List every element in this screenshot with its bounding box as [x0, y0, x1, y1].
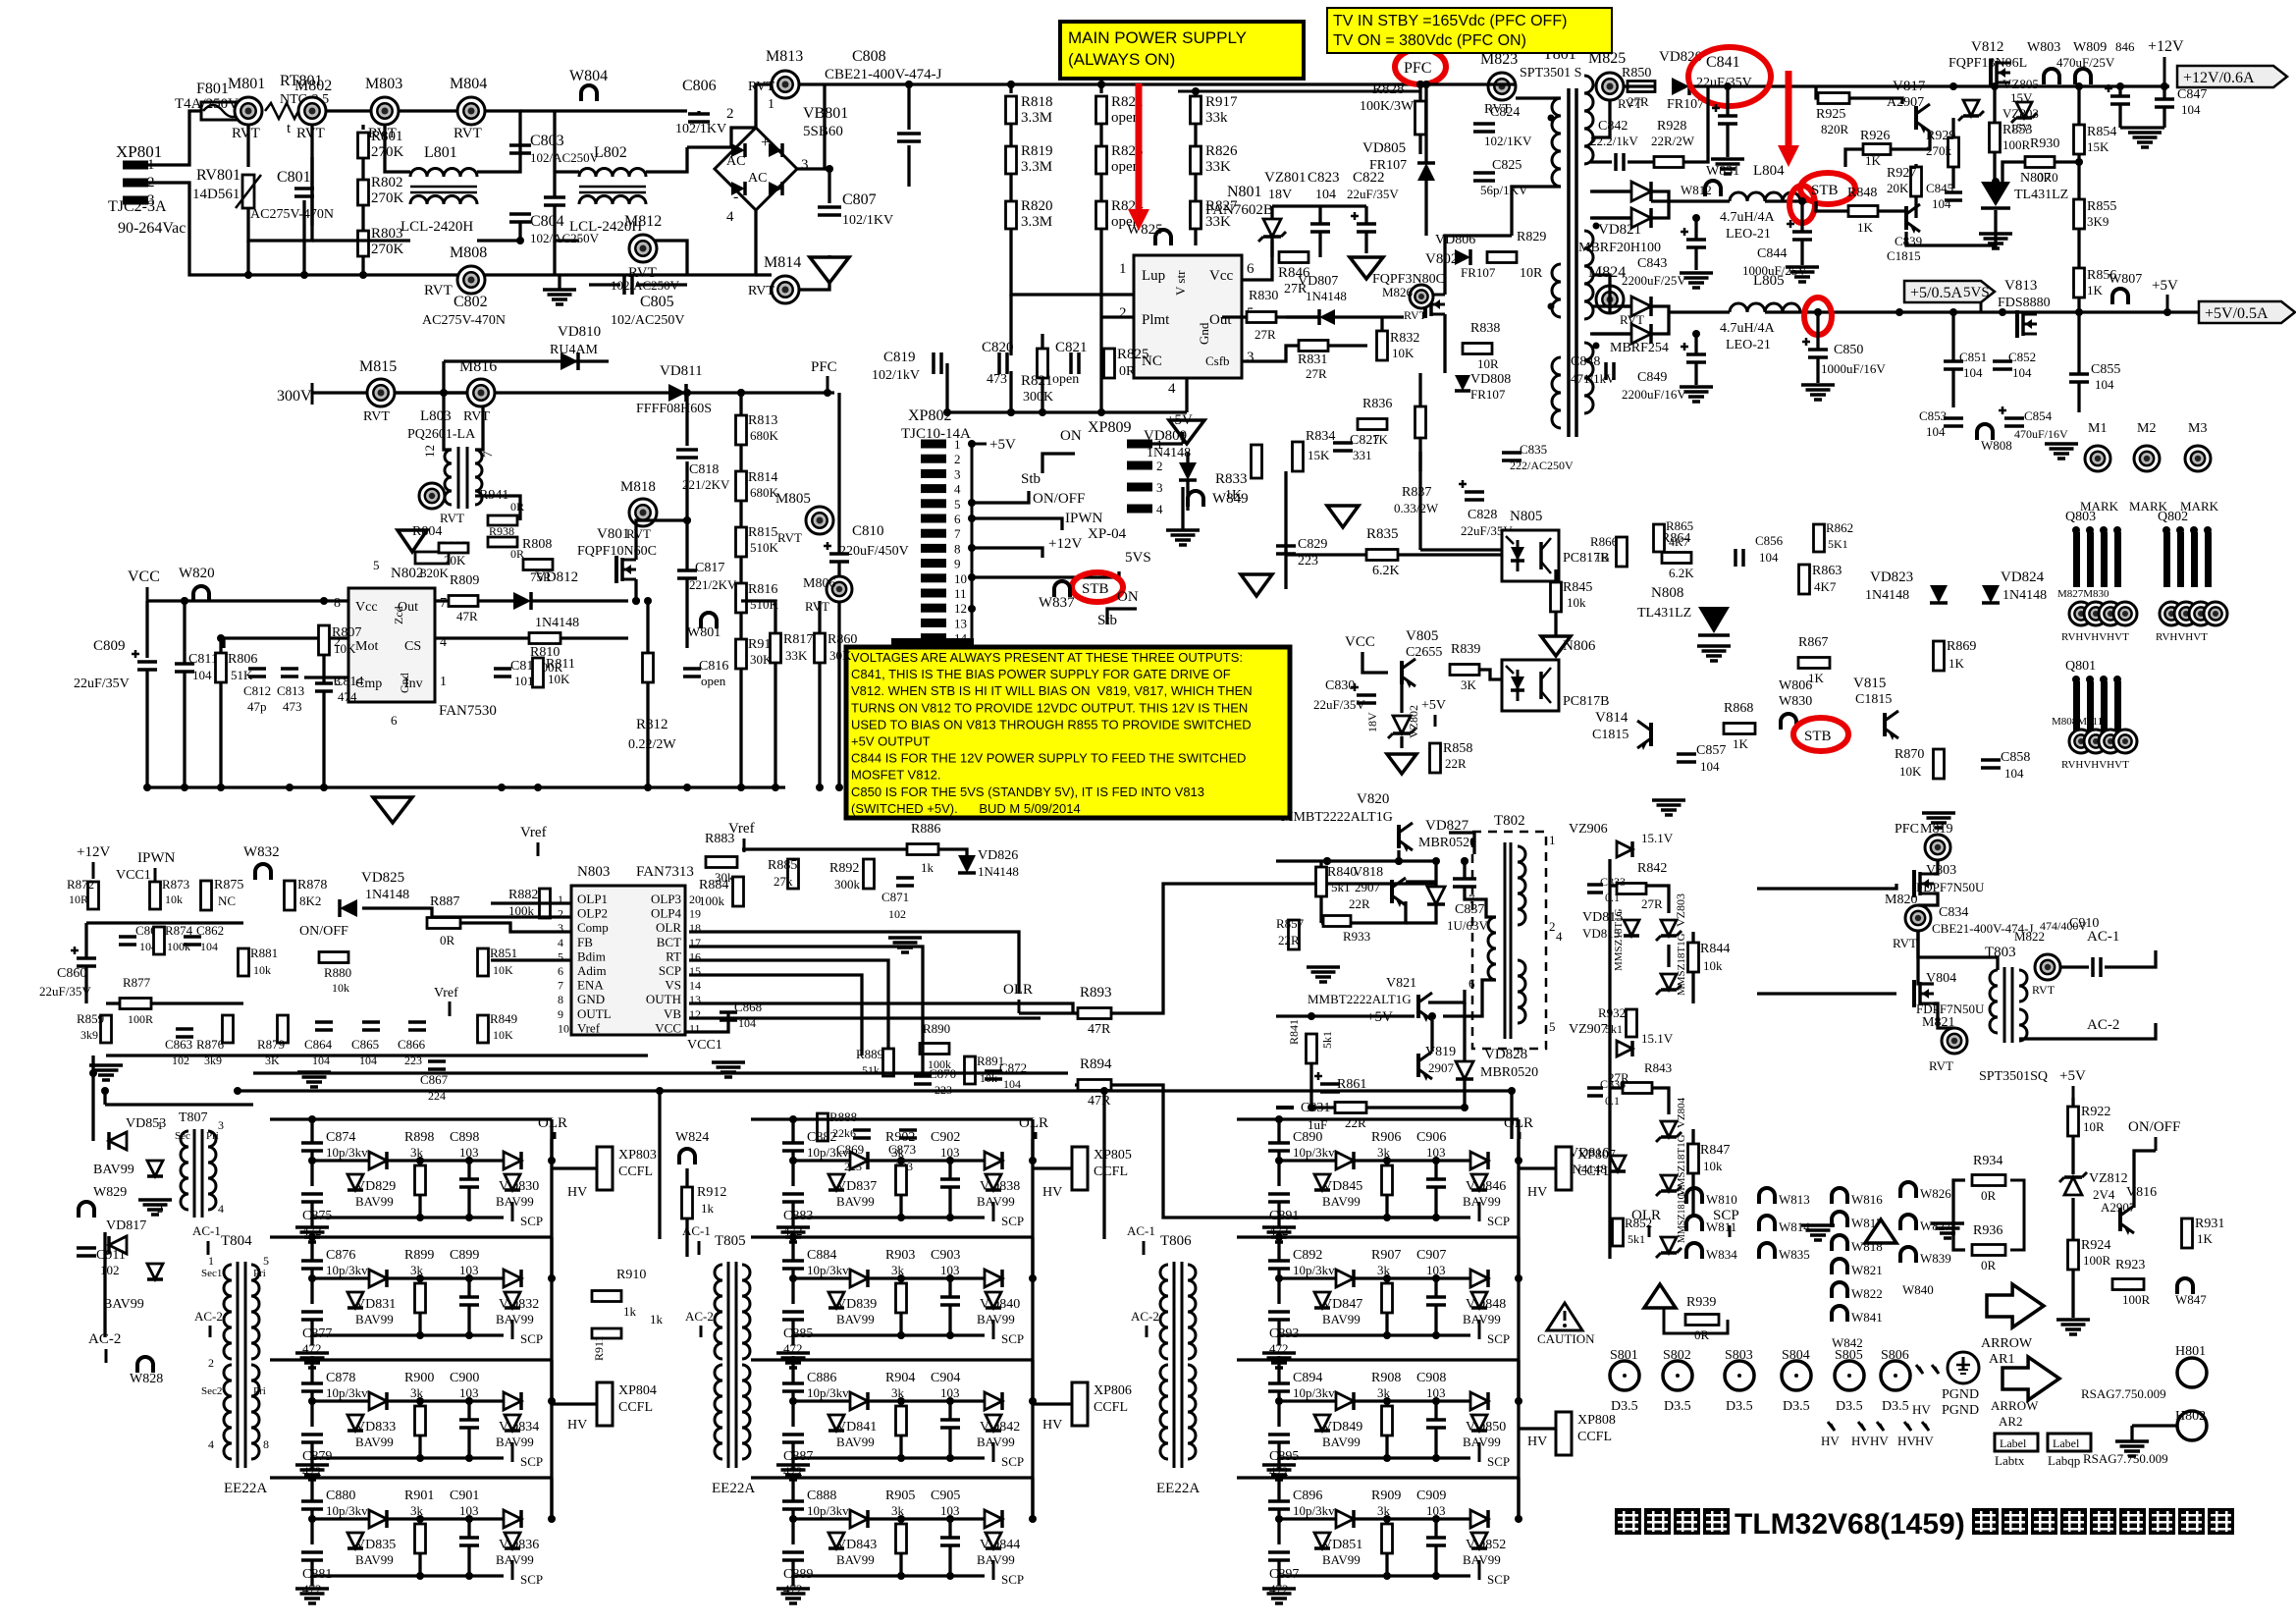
- svg-text:R894: R894: [1080, 1056, 1112, 1072]
- svg-text:W830: W830: [1779, 694, 1812, 709]
- svg-text:4: 4: [218, 1202, 224, 1216]
- wire T802 feeds: [1428, 859, 1436, 862]
- svg-text:T802: T802: [1494, 813, 1525, 829]
- svg-text:RVT: RVT: [232, 126, 260, 141]
- svg-text:C900: C900: [450, 1371, 479, 1385]
- wire mot: [224, 636, 348, 639]
- svg-text:R917: R917: [1205, 94, 1238, 110]
- svg-text:102/1KV: 102/1KV: [1484, 134, 1532, 148]
- diode VD847 BAV99: [1336, 1270, 1354, 1287]
- capacitor C853 104: [1944, 416, 1963, 420]
- svg-text:1N4148: 1N4148: [535, 616, 579, 630]
- svg-text:6: 6: [391, 713, 398, 728]
- svg-text:N802: N802: [391, 566, 423, 581]
- svg-text:5k1: 5k1: [1331, 880, 1351, 894]
- svg-text:MMSZ18T1G: MMSZ18T1G: [1613, 908, 1625, 971]
- svg-text:1N4148: 1N4148: [1865, 588, 1909, 603]
- svg-text:10p/3kv: 10p/3kv: [1293, 1263, 1335, 1277]
- resistor R801 270K: [361, 125, 364, 130]
- svg-text:R889: R889: [856, 1047, 883, 1061]
- svg-text:L804: L804: [1753, 163, 1785, 179]
- jumper group W816 W817 W818 W821 W822 W841: [1832, 1188, 1847, 1204]
- svg-text:ON: ON: [1117, 589, 1139, 605]
- mosfet V803 FDPF7N50U: [1912, 870, 1916, 897]
- capacitor C814 474: [315, 681, 333, 685]
- diode VD830 BAV99 right: [504, 1152, 521, 1169]
- junction dots R900: [308, 1397, 316, 1405]
- svg-text:R928: R928: [1657, 119, 1686, 134]
- diode VD822 MBRF254: [1631, 297, 1651, 316]
- svg-text:331: 331: [1353, 448, 1372, 462]
- wire R837 chain: [1418, 373, 1421, 406]
- svg-text:R808: R808: [522, 537, 552, 552]
- svg-text:OLR: OLR: [656, 920, 681, 935]
- diode VD824 1N4148: [1982, 585, 2000, 603]
- svg-text:C874: C874: [326, 1130, 355, 1145]
- svg-text:BAV99: BAV99: [1322, 1312, 1361, 1326]
- svg-text:56p/1KV: 56p/1KV: [1480, 183, 1528, 197]
- resistor R906 3k: [1382, 1165, 1393, 1195]
- resistor R885 27k: [788, 859, 799, 889]
- resistor R832 10K: [1377, 331, 1388, 360]
- svg-text:VCC1: VCC1: [687, 1038, 722, 1053]
- svg-text:C906: C906: [1416, 1130, 1446, 1145]
- main HV bus wire: [799, 82, 1420, 85]
- wire r877 row: [106, 1001, 120, 1004]
- svg-text:C850: C850: [1834, 343, 1863, 357]
- resistor R892 300k: [864, 859, 875, 889]
- svg-text:510K: 510K: [750, 540, 779, 555]
- svg-text:2200uF/16V: 2200uF/16V: [1622, 387, 1686, 402]
- zener VZ902 col: [1661, 974, 1677, 990]
- svg-text:0R: 0R: [1981, 1258, 1997, 1272]
- capacitor C871 102: [896, 876, 914, 880]
- resistor R810 100R: [529, 633, 561, 644]
- svg-text:open: open: [1052, 372, 1079, 387]
- capacitor C802 mid: [544, 195, 565, 199]
- resistor R847 10k: [1688, 1144, 1699, 1173]
- junction dots R903: [789, 1274, 797, 1282]
- svg-text:open: open: [701, 674, 726, 688]
- svg-text:ARROW: ARROW: [1981, 1336, 2033, 1351]
- svg-text:1: 1: [208, 1254, 214, 1268]
- transformer L803 right pins: [475, 496, 520, 520]
- ground earth R857: [1307, 965, 1340, 969]
- ground earth vd826: [888, 936, 922, 940]
- capacitor C804: [509, 212, 531, 216]
- svg-text:C810: C810: [852, 523, 884, 539]
- svg-text:BAV99: BAV99: [977, 1552, 1015, 1567]
- svg-text:(SWITCHED +5V). BUD M 5/0: (SWITCHED +5V). BUD M 5/09/2014: [851, 801, 1081, 816]
- svg-text:MBR0520: MBR0520: [1418, 836, 1476, 850]
- junction dots R905: [789, 1515, 797, 1523]
- capacitor C824: [1473, 122, 1495, 126]
- svg-text:OLR: OLR: [1631, 1208, 1661, 1223]
- svg-text:R843: R843: [1644, 1060, 1672, 1075]
- svg-text:VD805: VD805: [1362, 140, 1406, 156]
- svg-text:W803: W803: [2027, 40, 2060, 55]
- svg-text:10k: 10k: [1567, 595, 1586, 610]
- resistor R804 820K: [415, 552, 449, 564]
- svg-text:M1: M1: [2088, 421, 2107, 436]
- wire cmp: [304, 676, 348, 678]
- wire v805 chain: [1362, 652, 1388, 673]
- svg-text:5VS: 5VS: [1125, 550, 1151, 566]
- svg-text:Sec2: Sec2: [201, 1385, 222, 1397]
- svg-text:CCFL: CCFL: [1094, 1400, 1128, 1415]
- svg-text:R878: R878: [297, 878, 327, 893]
- xp802 net +5V: [972, 443, 987, 446]
- svg-text:C844 IS FOR THE 12V POWER SUPP: C844 IS FOR THE 12V POWER SUPPLY TO FEED…: [851, 751, 1246, 766]
- capacitor C909 103: [1426, 1536, 1446, 1540]
- svg-text:XP806: XP806: [1094, 1383, 1132, 1398]
- wire bank2 xp links: [1033, 1166, 1072, 1169]
- svg-text:BAV99: BAV99: [93, 1163, 134, 1177]
- TL431 N807: [1981, 182, 2010, 206]
- capacitor C850 1000uF/16V: [1808, 348, 1828, 352]
- svg-text:W808: W808: [1981, 438, 2012, 453]
- svg-text:C882: C882: [807, 1130, 836, 1145]
- test point M813: [772, 71, 799, 98]
- svg-text:C814: C814: [334, 675, 363, 689]
- svg-text:T803: T803: [1985, 945, 2016, 960]
- svg-text:MMSZ18T1G: MMSZ18T1G: [1676, 933, 1687, 996]
- svg-text:VZ906: VZ906: [1569, 822, 1608, 837]
- wire M803-M804: [399, 109, 457, 112]
- svg-text:VD826: VD826: [978, 848, 1018, 863]
- svg-text:ARROW: ARROW: [1991, 1398, 2039, 1413]
- resistor R846 27R: [1279, 252, 1308, 263]
- svg-text:R885: R885: [768, 858, 797, 873]
- svg-text:10R: 10R: [1477, 356, 1499, 371]
- svg-text:5: 5: [1549, 1019, 1556, 1034]
- svg-text:R865: R865: [1666, 518, 1693, 533]
- wires bridge: [687, 128, 756, 147]
- capacitor C831 1uF: [1320, 1082, 1340, 1086]
- svg-text:1: 1: [157, 1118, 163, 1132]
- svg-text:22uF/35V: 22uF/35V: [1313, 697, 1365, 712]
- svg-text:C809: C809: [93, 638, 126, 654]
- capacitor C856 104: [1734, 549, 1737, 567]
- svg-text:C2655: C2655: [1406, 645, 1442, 660]
- svg-text:R887: R887: [430, 894, 459, 909]
- capacitor C883: [782, 1192, 804, 1196]
- svg-text:104: 104: [192, 668, 212, 682]
- capacitor C848 471/1kV: [1604, 362, 1608, 380]
- SCP stub R904: [992, 1442, 995, 1462]
- svg-text:7: 7: [440, 596, 447, 611]
- ground earth C855: [2045, 442, 2078, 446]
- svg-text:TL431LZ: TL431LZ: [1637, 606, 1691, 621]
- svg-text:12: 12: [954, 601, 967, 616]
- zener VZ906 15.1V: [1617, 841, 1632, 857]
- svg-text:R907: R907: [1371, 1248, 1401, 1263]
- screw holes S801-S806: [1610, 1361, 1639, 1390]
- svg-text:100R: 100R: [2002, 137, 2031, 152]
- svg-text:10p/3kv: 10p/3kv: [807, 1503, 849, 1518]
- svg-text:470uF/16V: 470uF/16V: [2014, 427, 2068, 441]
- svg-text:R832: R832: [1390, 331, 1419, 346]
- svg-text:1K: 1K: [2087, 283, 2104, 298]
- svg-text:R941: R941: [479, 488, 508, 503]
- svg-text:VD825: VD825: [361, 870, 404, 886]
- connector Q801 test points: [2069, 730, 2093, 753]
- svg-text:Out: Out: [398, 600, 418, 615]
- red arrow right: [1786, 71, 1792, 153]
- svg-text:10p/3kv: 10p/3kv: [1293, 1503, 1335, 1518]
- svg-text:R854: R854: [2087, 125, 2116, 139]
- svg-text:C905: C905: [931, 1489, 960, 1503]
- svg-text:5k1: 5k1: [1605, 1022, 1623, 1036]
- svg-text:FDPF7N50U: FDPF7N50U: [1916, 1001, 1985, 1016]
- svg-text:5: 5: [263, 1254, 269, 1268]
- jumpers W806 W830: [1781, 714, 1796, 730]
- svg-text:FDPF7N50U: FDPF7N50U: [1916, 880, 1985, 894]
- resistor R883 30k: [706, 857, 737, 868]
- test point M802: [298, 97, 326, 125]
- svg-text:R886: R886: [911, 822, 940, 837]
- svg-text:LEO-21: LEO-21: [1726, 227, 1771, 242]
- svg-text:FQPF13N06L: FQPF13N06L: [1949, 56, 2027, 71]
- resistor R844 10k: [1688, 943, 1699, 972]
- svg-text:R925: R925: [1816, 107, 1845, 122]
- resistor R807 10K: [319, 625, 330, 655]
- ground tick: [1276, 1106, 1294, 1110]
- svg-text:SCP: SCP: [1487, 1331, 1510, 1346]
- resistor R857 22R: [1289, 920, 1300, 949]
- capacitor C845 104: [1945, 190, 1962, 194]
- diode VD844 BAV99 right: [985, 1510, 1002, 1528]
- svg-text:R817: R817: [783, 632, 813, 647]
- capacitor C855 104: [2069, 372, 2089, 376]
- svg-text:R881: R881: [250, 946, 278, 960]
- svg-text:8K2: 8K2: [299, 893, 321, 908]
- svg-text:R811: R811: [546, 657, 575, 672]
- svg-text:2: 2: [208, 1356, 214, 1370]
- svg-text:(1459): (1459): [1880, 1508, 1965, 1541]
- diode VD834 BAV99 right: [504, 1392, 521, 1410]
- svg-text:0R: 0R: [440, 933, 455, 947]
- resistor R890 100k: [920, 1044, 949, 1055]
- capacitor C846 ecap: [2110, 94, 2130, 98]
- svg-text:VZ803: VZ803: [2002, 106, 2039, 121]
- bottom rail pfc: [147, 785, 785, 788]
- wire V821 base row: [1276, 1014, 1415, 1017]
- jumper W824 + R912: [679, 1149, 695, 1164]
- svg-text:TLM32V68: TLM32V68: [1735, 1508, 1880, 1541]
- connector XP808 CCFL: [1556, 1412, 1572, 1455]
- ground earth w2: [1801, 1223, 1835, 1227]
- resistor R932 5k1: [1627, 1009, 1637, 1037]
- svg-text:R847: R847: [1700, 1143, 1730, 1158]
- svg-text:Bdim: Bdim: [577, 948, 606, 963]
- resistor R882 100k: [540, 889, 551, 918]
- capacitor C897: [1268, 1550, 1290, 1554]
- zener VZ907 15.1V: [1617, 1041, 1632, 1056]
- svg-text:8: 8: [558, 993, 563, 1006]
- svg-text:47R: 47R: [456, 609, 478, 623]
- svg-text:R936: R936: [1973, 1223, 2002, 1238]
- wire row VD847: [1279, 1276, 1336, 1279]
- resistor R824 open: [1099, 174, 1102, 200]
- svg-text:3k9: 3k9: [80, 1028, 98, 1042]
- resistor R835 6.2K: [1366, 550, 1398, 561]
- svg-text:22R: 22R: [1349, 896, 1370, 911]
- capacitor C812 47p: [248, 667, 266, 671]
- svg-text:CCFL: CCFL: [618, 1400, 653, 1415]
- svg-text:SCP: SCP: [1487, 1214, 1510, 1228]
- wire VD821 to L804: [1651, 199, 1730, 202]
- svg-text:V817: V817: [1893, 79, 1926, 94]
- capacitor C861 104: [119, 935, 136, 939]
- resistor R918 30K: [736, 639, 747, 669]
- svg-text:STB: STB: [1082, 581, 1109, 597]
- svg-text:PGND: PGND: [1942, 1403, 1979, 1418]
- diode VD843 BAV99: [850, 1510, 868, 1528]
- wire OLR to R893: [1019, 1011, 1078, 1014]
- jumper W849: [1188, 491, 1203, 507]
- svg-text:4: 4: [726, 209, 734, 225]
- resistor R856 1K: [2074, 268, 2085, 298]
- connector XP801: [123, 161, 148, 170]
- svg-text:XP808: XP808: [1577, 1413, 1616, 1428]
- wire bank2 olr bus: [1031, 1139, 1034, 1519]
- svg-text:C841, THIS IS THE BIAS POWER S: C841, THIS IS THE BIAS POWER SUPPLY FOR …: [851, 667, 1231, 681]
- junction dots main buses: [905, 81, 913, 88]
- svg-text:R859: R859: [77, 1011, 104, 1026]
- svg-text:FFFF08H60S: FFFF08H60S: [636, 402, 712, 416]
- svg-text:C860: C860: [57, 966, 86, 981]
- zener VZ805 15V: [1963, 100, 1979, 116]
- svg-text:100k: 100k: [699, 893, 725, 908]
- capacitor C851 104: [1944, 359, 1963, 363]
- resistor R854 15K: [2074, 125, 2085, 154]
- transformer T805: [727, 1262, 730, 1468]
- wires T802 pins: [1476, 899, 1496, 917]
- svg-text:LEO-21: LEO-21: [1726, 338, 1771, 352]
- svg-text:R888: R888: [829, 1110, 857, 1124]
- svg-text:OLR: OLR: [1504, 1115, 1533, 1131]
- svg-text:C864: C864: [304, 1037, 333, 1052]
- svg-text:+12V: +12V: [77, 844, 110, 860]
- svg-text:10R: 10R: [2083, 1119, 2105, 1134]
- svg-text:R806: R806: [228, 652, 257, 667]
- svg-text:8: 8: [954, 541, 961, 556]
- diode VD851 BAV99: [1336, 1510, 1354, 1528]
- caution triangle: [1547, 1303, 1582, 1330]
- svg-text:R898: R898: [404, 1130, 434, 1145]
- svg-text:PGND: PGND: [1942, 1387, 1979, 1402]
- svg-text:MMSZ18T1G: MMSZ18T1G: [1676, 1134, 1687, 1197]
- svg-text:100k: 100k: [167, 940, 190, 953]
- wire T801 secondary taps: [1592, 100, 1610, 137]
- resistor R803 270K: [358, 231, 369, 256]
- wire +5V to R922 b: [2071, 1098, 2074, 1107]
- svg-text:C804: C804: [530, 213, 564, 230]
- transistor V817 A2907: [1914, 106, 1918, 130]
- svg-text:7: 7: [954, 526, 961, 541]
- jumper group W826 W827 W839: [1900, 1182, 1916, 1198]
- svg-text:M808: M808: [450, 244, 487, 261]
- svg-text:C853: C853: [1919, 408, 1947, 423]
- svg-text:W840: W840: [1902, 1282, 1934, 1297]
- svg-text:M812: M812: [624, 213, 662, 230]
- diode VD852 BAV99 right: [1470, 1510, 1488, 1528]
- svg-text:R825: R825: [1117, 347, 1149, 362]
- ground earth under XP809: [1166, 528, 1200, 532]
- svg-text:L805: L805: [1753, 273, 1785, 289]
- wire row top plate C884: [751, 1235, 1033, 1238]
- capacitor C888: [782, 1499, 804, 1503]
- wire L804 to +12 node: [1765, 199, 1816, 202]
- svg-text:C808: C808: [852, 48, 886, 65]
- resistor R860 30K: [815, 633, 826, 663]
- svg-text:PFC: PFC: [1404, 60, 1431, 77]
- svg-text:(ALWAYS ON): (ALWAYS ON): [1068, 50, 1175, 69]
- wire row bottom R898: [312, 1216, 504, 1218]
- svg-text:R816: R816: [748, 582, 777, 597]
- wire 300V rail: [312, 391, 466, 394]
- svg-text:RVT: RVT: [1929, 1058, 1953, 1073]
- capacitor C813 473: [281, 667, 298, 671]
- svg-text:FR107: FR107: [1369, 158, 1407, 173]
- test point M818: [629, 499, 657, 526]
- SCP stub R908: [1478, 1442, 1481, 1462]
- resistor R911: [592, 1328, 621, 1338]
- svg-text:R883: R883: [705, 832, 734, 846]
- svg-text:SCP: SCP: [659, 963, 681, 978]
- jumper W837: [1054, 581, 1070, 597]
- junction dots R898: [308, 1157, 316, 1164]
- svg-text:5k1: 5k1: [1628, 1232, 1645, 1246]
- svg-text:Pri: Pri: [253, 1385, 266, 1397]
- svg-text:VCC1: VCC1: [116, 868, 151, 883]
- diode VD829 BAV99: [369, 1152, 387, 1169]
- svg-text:R807: R807: [332, 625, 361, 640]
- capacitor C889: [782, 1550, 804, 1554]
- svg-text:102/1KV: 102/1KV: [842, 213, 893, 228]
- resistor R852 5k1: [1613, 1218, 1624, 1246]
- svg-text:N808: N808: [1651, 585, 1683, 601]
- svg-text:R868: R868: [1724, 701, 1753, 716]
- svg-text:BAV99: BAV99: [1463, 1552, 1501, 1567]
- diodes VD853/VD817 left edge: [109, 1132, 127, 1150]
- resistor R806 51K: [216, 653, 227, 682]
- svg-text:C902: C902: [931, 1130, 960, 1145]
- svg-text:3K9: 3K9: [2087, 214, 2109, 229]
- svg-text:104: 104: [1963, 365, 1983, 380]
- svg-text:+5V: +5V: [2059, 1068, 2086, 1084]
- resistor R925 820R: [1818, 93, 1849, 104]
- svg-text:HV: HV: [1897, 1434, 1916, 1448]
- svg-text:1K: 1K: [1733, 736, 1749, 751]
- svg-text:C848: C848: [1571, 354, 1600, 369]
- svg-text:R934: R934: [1973, 1154, 2002, 1168]
- svg-text:SCP: SCP: [1001, 1454, 1024, 1469]
- svg-text:V805: V805: [1406, 628, 1438, 644]
- wire V821 collector pin6: [1428, 990, 1465, 1002]
- svg-text:R873: R873: [162, 877, 189, 892]
- ground earth mid: [297, 1070, 331, 1074]
- svg-text:S802: S802: [1663, 1348, 1691, 1363]
- svg-text:AR2: AR2: [1999, 1414, 2023, 1429]
- svg-text:R814: R814: [748, 470, 777, 485]
- ground triangles xp area: [1327, 506, 1359, 527]
- svg-text:+5V: +5V: [1166, 412, 1193, 428]
- svg-text:HV: HV: [1042, 1418, 1062, 1433]
- svg-text:R905: R905: [885, 1489, 915, 1503]
- diode VD845 BAV99: [1336, 1152, 1354, 1169]
